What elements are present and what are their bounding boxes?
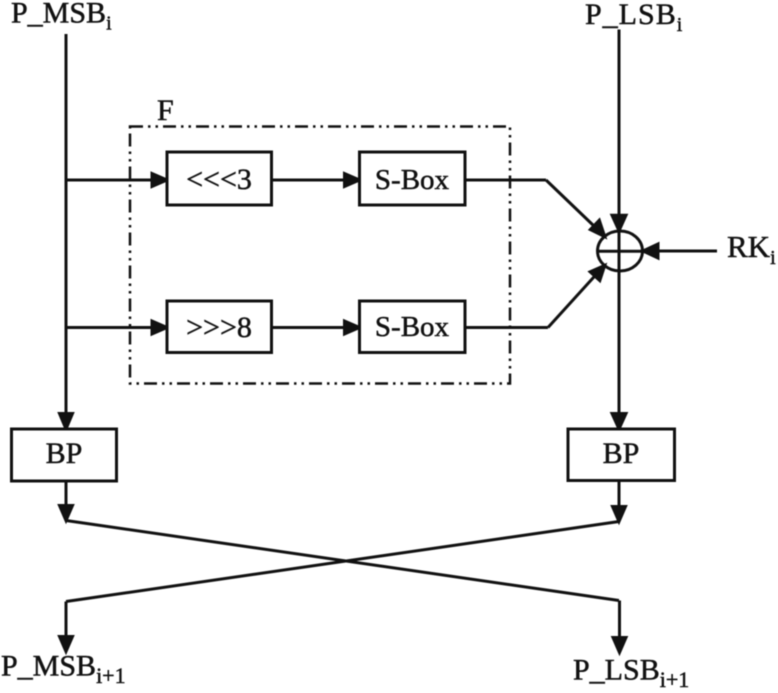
wire BP right output arrow bbox=[613, 481, 626, 522]
wire down to P_MSB_i+1 bbox=[60, 602, 73, 652]
svg-text:P_MSBi: P_MSBi bbox=[11, 0, 112, 35]
svg-text:S-Box: S-Box bbox=[375, 311, 450, 343]
block rotate-right >>>8 bbox=[167, 301, 272, 353]
svg-text:>>>8: >>>8 bbox=[186, 311, 252, 344]
wire rotate-left to S-Box bbox=[272, 174, 360, 187]
block rotate-left <<<3 bbox=[167, 152, 272, 205]
block S-Box lower bbox=[360, 301, 466, 353]
svg-text:RKi: RKi bbox=[727, 229, 776, 269]
svg-text:BP: BP bbox=[603, 437, 640, 470]
svg-text:<<<3: <<<3 bbox=[186, 163, 252, 196]
svg-text:S-Box: S-Box bbox=[375, 164, 450, 196]
wire branch to rotate-left block bbox=[65, 174, 167, 187]
wire RK_i into XOR bbox=[643, 244, 717, 258]
wire cross diagonal left-to-right bbox=[66, 521, 619, 601]
wire branch to rotate-right block bbox=[65, 321, 167, 334]
wire right vertical upper (P_LSB into XOR) bbox=[612, 30, 626, 231]
wire rotate-right to S-Box bbox=[272, 321, 360, 334]
svg-text:P_MSBi+1: P_MSBi+1 bbox=[1, 650, 126, 689]
wire upper S-Box to XOR bbox=[465, 180, 605, 237]
wire down to P_LSB_i+1 bbox=[613, 601, 626, 653]
XOR node bbox=[598, 230, 643, 272]
wire cross diagonal right-to-left bbox=[66, 522, 619, 602]
block S-Box upper bbox=[360, 152, 466, 205]
F function boundary (dash-dot box) bbox=[130, 127, 510, 384]
wire lower S-Box to XOR bbox=[465, 265, 605, 327]
wire XOR to right BP bbox=[612, 271, 626, 429]
block BP right bbox=[568, 429, 675, 481]
wire BP left output arrow bbox=[60, 481, 73, 521]
wire left vertical bus bbox=[60, 34, 73, 429]
svg-text:BP: BP bbox=[46, 437, 83, 470]
svg-text:P_LSBi+1: P_LSBi+1 bbox=[573, 654, 689, 693]
svg-text:F: F bbox=[157, 94, 174, 127]
svg-text:P_LSBi: P_LSBi bbox=[585, 0, 683, 36]
block BP left bbox=[12, 429, 117, 481]
